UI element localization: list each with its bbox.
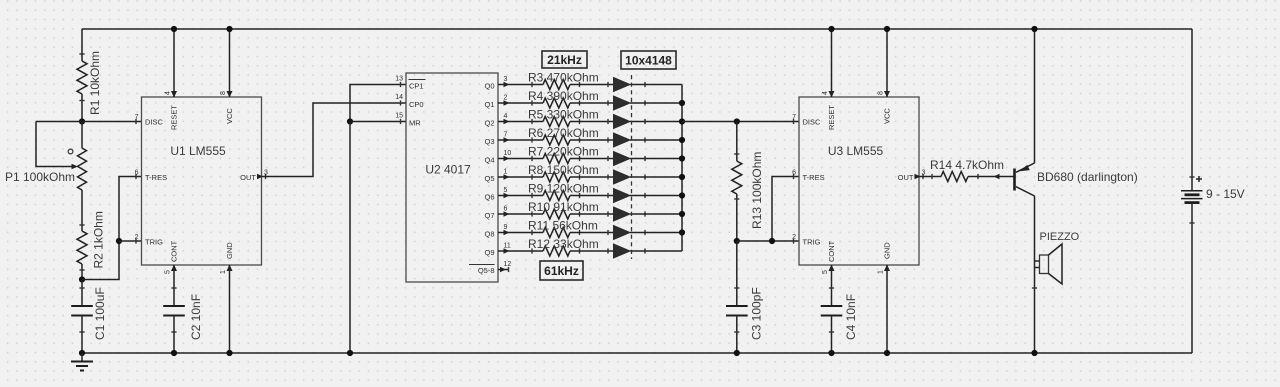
resistor R7 220kOhm bbox=[528, 145, 614, 164]
label frame 10x4148 bbox=[621, 51, 676, 69]
node junction bottom rail / MR bbox=[347, 350, 353, 356]
wire U1 OUT to U2 CP0 bbox=[262, 103, 407, 177]
node junction rail/VCC U1 bbox=[226, 26, 232, 32]
wire U3 OUT to R14 bbox=[919, 176, 941, 178]
resistor R14 4.7kOhm bbox=[930, 158, 1014, 182]
svg-text:5: 5 bbox=[165, 270, 172, 274]
resistor R11 56kOhm bbox=[528, 219, 614, 238]
wire bus to U3 DISC bbox=[682, 121, 799, 123]
svg-text:10x4148: 10x4148 bbox=[625, 54, 672, 68]
wire U1 CONT to C2 bbox=[173, 265, 175, 306]
svg-text:RESET: RESET bbox=[827, 105, 836, 130]
node junction rail/RESET U3 bbox=[828, 26, 834, 32]
capacitor C1 100uF bbox=[71, 280, 107, 354]
resistor R10 91kOhm bbox=[528, 200, 614, 219]
svg-text:R13 100kOhm: R13 100kOhm bbox=[750, 152, 764, 229]
ground symbol bbox=[71, 353, 93, 371]
counter U2 4017 bbox=[395, 73, 511, 282]
svg-text:VCC: VCC bbox=[883, 108, 892, 124]
wire diode summing bus bbox=[681, 85, 683, 252]
svg-text:CP0: CP0 bbox=[409, 100, 424, 109]
resistor R8 150kOhm bbox=[528, 163, 614, 182]
svg-text:DISC: DISC bbox=[145, 118, 164, 127]
node junction bottom rail / U1 GND bbox=[226, 350, 232, 356]
svg-text:VCC: VCC bbox=[225, 108, 234, 124]
capacitor C4 10nF bbox=[821, 288, 858, 353]
wire battery positive lead bbox=[1191, 29, 1193, 191]
svg-text:C4 10nF: C4 10nF bbox=[844, 294, 858, 340]
node junction bottom rail / C1 bbox=[79, 350, 85, 356]
node junction bus row 6 bbox=[679, 174, 685, 180]
svg-text:P1 100kOhm: P1 100kOhm bbox=[5, 170, 75, 184]
node junction bus row 4 bbox=[679, 137, 685, 143]
wire Q4 output bbox=[498, 158, 543, 160]
svg-text:Q3: Q3 bbox=[484, 137, 494, 146]
svg-text:R3 470kOhm: R3 470kOhm bbox=[528, 71, 599, 85]
svg-text:8: 8 bbox=[220, 91, 227, 95]
wire Q9 output bbox=[498, 250, 543, 252]
svg-text:R5 330kOhm: R5 330kOhm bbox=[528, 108, 599, 122]
svg-text:61kHz: 61kHz bbox=[544, 264, 579, 278]
svg-text:4: 4 bbox=[165, 91, 172, 95]
node junction rail / Q1 emitter bbox=[1031, 26, 1037, 32]
node junction R13/C3/TRIG bbox=[734, 238, 740, 244]
svg-text:15: 15 bbox=[395, 113, 403, 120]
svg-text:R9 120kOhm: R9 120kOhm bbox=[528, 182, 599, 196]
svg-text:R7 220kOhm: R7 220kOhm bbox=[528, 145, 599, 159]
svg-text:CP1: CP1 bbox=[409, 82, 424, 91]
node junction bottom rail / U3 GND bbox=[884, 350, 890, 356]
wire Q6 output bbox=[498, 195, 543, 197]
label frame 21kHz bbox=[542, 51, 587, 68]
wire D10 cathode to bus bbox=[630, 250, 682, 252]
svg-text:7: 7 bbox=[504, 132, 508, 139]
node junction bus row 9 bbox=[679, 229, 685, 235]
svg-text:9 - 15V: 9 - 15V bbox=[1206, 187, 1245, 201]
pin lead ticks bbox=[400, 82, 402, 87]
diode D10 1N4148 bbox=[608, 244, 645, 258]
node junction THRES/TRIG U3 bbox=[769, 238, 775, 244]
wire P1 wiper bbox=[36, 122, 72, 167]
label frame 61kHz bbox=[540, 261, 583, 280]
svg-text:Q0: Q0 bbox=[484, 82, 494, 91]
svg-text:GND: GND bbox=[883, 242, 892, 259]
wire Q5 output bbox=[498, 176, 543, 178]
svg-text:14: 14 bbox=[395, 94, 403, 101]
wire Q7 output bbox=[498, 213, 543, 215]
svg-text:R14 4.7kOhm: R14 4.7kOhm bbox=[930, 158, 1004, 172]
wire Q8 output bbox=[498, 232, 543, 234]
wire D3 cathode to bus bbox=[630, 121, 682, 123]
wire Q1 collector down bbox=[1032, 196, 1037, 353]
node junction bottom rail / C3 bbox=[734, 350, 740, 356]
svg-text:5: 5 bbox=[504, 187, 508, 194]
svg-text:T-RES: T-RES bbox=[803, 173, 825, 182]
capacitor C2 10nF bbox=[163, 288, 203, 353]
node junction bus row 8 bbox=[679, 211, 685, 217]
svg-text:10: 10 bbox=[504, 150, 512, 157]
wire U1 VCC to rail bbox=[229, 29, 231, 97]
pin lead ticks bbox=[793, 119, 795, 124]
svg-text:Q4: Q4 bbox=[484, 156, 494, 165]
wire MR to ground rail bbox=[349, 122, 351, 354]
wire THRES-TRIG link U1 bbox=[82, 177, 142, 280]
svg-text:Q7: Q7 bbox=[484, 211, 494, 220]
diode array cathode bar (dashed) bbox=[631, 75, 633, 259]
svg-text:Q8: Q8 bbox=[484, 230, 494, 239]
wire battery negative lead bbox=[1191, 203, 1193, 353]
resistor R2 1kOhm bbox=[77, 211, 106, 279]
diode D7 1N4148 bbox=[608, 189, 645, 203]
svg-text:OUT: OUT bbox=[898, 173, 914, 182]
svg-text:11: 11 bbox=[504, 243, 511, 250]
potentiometer P1 100kOhm bbox=[5, 122, 87, 191]
node junction R1/P1/DISC bbox=[79, 118, 85, 124]
wire U3 TRIG bbox=[737, 240, 799, 242]
node junction CP1/MR bbox=[347, 118, 353, 124]
svg-text:TRIG: TRIG bbox=[145, 238, 163, 247]
svg-text:R6 270kOhm: R6 270kOhm bbox=[528, 126, 599, 140]
diode D4 1N4148 bbox=[608, 133, 645, 147]
node junction bottom rail / C2 bbox=[171, 350, 177, 356]
svg-text:Q1: Q1 bbox=[484, 100, 494, 109]
svg-text:BD680 (darlington): BD680 (darlington) bbox=[1037, 170, 1138, 184]
svg-text:9: 9 bbox=[504, 224, 508, 231]
op-amp timer U1 LM555 bbox=[135, 91, 268, 274]
resistor R9 120kOhm bbox=[528, 182, 614, 201]
svg-text:Q9: Q9 bbox=[484, 248, 494, 257]
svg-text:U2 4017: U2 4017 bbox=[425, 163, 471, 177]
wire TRIG stub U1 bbox=[119, 240, 142, 242]
svg-text:3: 3 bbox=[504, 76, 508, 83]
wire Q2 output bbox=[498, 121, 543, 123]
svg-text:DISC: DISC bbox=[803, 118, 822, 127]
speaker PIEZZO bbox=[1035, 231, 1080, 284]
diode D2 1N4148 bbox=[608, 96, 645, 110]
svg-text:R1 10kOhm: R1 10kOhm bbox=[88, 51, 102, 115]
wire Q0 output bbox=[498, 84, 543, 86]
svg-text:MR: MR bbox=[409, 119, 421, 128]
wire top V+ rail bbox=[82, 28, 1192, 30]
wire U1 GND to rail bbox=[229, 265, 231, 353]
svg-text:1: 1 bbox=[878, 270, 885, 274]
op-amp timer U3 LM555 bbox=[792, 91, 925, 274]
node junction rail/VCC U3 bbox=[884, 26, 890, 32]
wire D2 cathode to bus bbox=[630, 102, 682, 104]
resistor R3 470kOhm bbox=[528, 71, 614, 90]
svg-text:1: 1 bbox=[504, 169, 508, 176]
wire U3 GND to rail bbox=[886, 265, 888, 353]
wire D1 cathode to bus bbox=[630, 84, 682, 86]
wire D4 cathode to bus bbox=[630, 139, 682, 141]
resistor R1 10kOhm bbox=[77, 29, 102, 122]
transistor Q1 BD680 (darlington) bbox=[994, 163, 1138, 196]
wire bottom ground rail bbox=[82, 352, 1192, 354]
wire U3 CONT to C4 bbox=[831, 265, 833, 306]
svg-text:R10 91kOhm: R10 91kOhm bbox=[528, 200, 599, 214]
diode D3 1N4148 bbox=[608, 115, 645, 129]
svg-text:U3 LM555: U3 LM555 bbox=[828, 144, 884, 158]
svg-text:6: 6 bbox=[504, 206, 508, 213]
resistor R13 100kOhm bbox=[732, 122, 764, 242]
wire U3 RESET to rail bbox=[831, 29, 833, 97]
node junction rail/RESET U1 bbox=[171, 26, 177, 32]
wire U1 DISC net bbox=[36, 121, 142, 123]
svg-text:Q5-8: Q5-8 bbox=[478, 266, 495, 275]
wire Q3 output bbox=[498, 139, 543, 141]
wire U3 VCC to rail bbox=[886, 29, 888, 97]
svg-text:R2 1kOhm: R2 1kOhm bbox=[92, 211, 106, 268]
capacitor C3 100pF bbox=[726, 241, 764, 353]
node junction TRIG U1 bbox=[116, 238, 122, 244]
node junction R2/C1/TRIG bbox=[79, 276, 85, 282]
svg-text:CONT: CONT bbox=[170, 240, 179, 262]
svg-text:R12 33kOhm: R12 33kOhm bbox=[528, 237, 599, 251]
svg-text:1: 1 bbox=[220, 270, 227, 274]
wire D6 cathode to bus bbox=[630, 176, 682, 178]
diode D9 1N4148 bbox=[608, 226, 645, 240]
node junction R13 top bbox=[734, 118, 740, 124]
svg-text:OUT: OUT bbox=[240, 173, 256, 182]
wire D9 cathode to bus bbox=[630, 232, 682, 234]
diode D8 1N4148 bbox=[608, 207, 645, 221]
svg-text:Q2: Q2 bbox=[484, 119, 494, 128]
node junction bus row 3 bbox=[679, 118, 685, 124]
svg-text:CONT: CONT bbox=[827, 240, 836, 262]
svg-text:U1 LM555: U1 LM555 bbox=[170, 144, 226, 158]
resistor R4 390kOhm bbox=[528, 89, 614, 108]
svg-text:5: 5 bbox=[822, 270, 829, 274]
node junction bus row 5 bbox=[679, 155, 685, 161]
svg-text:C3 100pF: C3 100pF bbox=[750, 287, 764, 340]
node junction bottom rail / C4 bbox=[828, 350, 834, 356]
node junction bus row 7 bbox=[679, 192, 685, 198]
wire D7 cathode to bus bbox=[630, 195, 682, 197]
svg-text:Q5: Q5 bbox=[484, 174, 494, 183]
svg-text:C1 100uF: C1 100uF bbox=[93, 287, 107, 340]
wire U2 MR stub bbox=[350, 121, 406, 123]
node junction bottom rail / speaker bbox=[1031, 350, 1037, 356]
svg-text:13: 13 bbox=[395, 76, 403, 83]
resistor R5 330kOhm bbox=[528, 108, 614, 127]
wire D5 cathode to bus bbox=[630, 158, 682, 160]
wire U1 RESET to rail bbox=[173, 29, 175, 97]
node junction bus row 2 bbox=[679, 100, 685, 106]
wire Q1 output bbox=[498, 102, 543, 104]
svg-text:Q6: Q6 bbox=[484, 193, 494, 202]
svg-text:TRIG: TRIG bbox=[803, 238, 821, 247]
svg-text:R4 390kOhm: R4 390kOhm bbox=[528, 89, 599, 103]
wire U2 CP1 net bbox=[350, 85, 406, 122]
wire Q1 emitter to rail bbox=[1034, 29, 1036, 163]
svg-text:8: 8 bbox=[878, 91, 885, 95]
wire P1 to R2 bbox=[81, 190, 83, 231]
diode D1 1N4148 bbox=[608, 78, 645, 92]
svg-text:4: 4 bbox=[822, 91, 829, 95]
svg-text:4: 4 bbox=[504, 113, 508, 120]
svg-text:RESET: RESET bbox=[170, 105, 179, 130]
svg-text:T-RES: T-RES bbox=[145, 173, 167, 182]
resistor R6 270kOhm bbox=[528, 126, 614, 145]
svg-text:12: 12 bbox=[504, 261, 512, 268]
pin lead ticks bbox=[135, 119, 137, 124]
svg-text:C2 10nF: C2 10nF bbox=[189, 294, 203, 340]
svg-text:PIEZZO: PIEZZO bbox=[1040, 231, 1080, 243]
svg-text:21kHz: 21kHz bbox=[547, 53, 582, 67]
battery 9-15V bbox=[1181, 176, 1245, 223]
svg-text:R11 56kOhm: R11 56kOhm bbox=[528, 219, 598, 233]
diode D5 1N4148 bbox=[608, 152, 645, 166]
diode D6 1N4148 bbox=[608, 170, 645, 184]
svg-text:R8 150kOhm: R8 150kOhm bbox=[528, 163, 599, 177]
resistor R12 33kOhm bbox=[528, 237, 614, 256]
wire U3 THRES link bbox=[772, 177, 799, 242]
wire D8 cathode to bus bbox=[630, 213, 682, 215]
svg-text:2: 2 bbox=[504, 95, 508, 102]
svg-text:GND: GND bbox=[225, 242, 234, 259]
